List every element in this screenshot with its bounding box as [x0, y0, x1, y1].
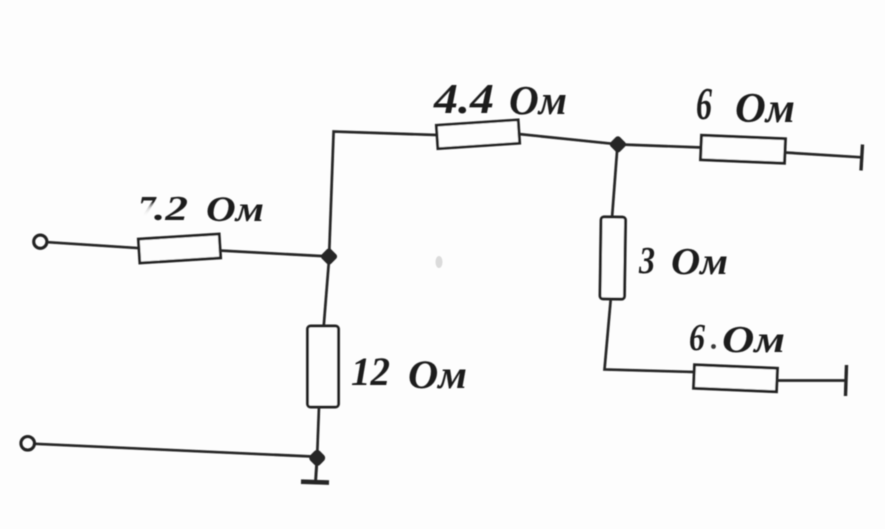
svg-text:Ом: Ом: [408, 352, 467, 397]
value label 6 Ом (bottom right): [689, 317, 785, 361]
wire R2 to node B: [519, 134, 619, 144]
terminal T3 (top right end bar): [861, 145, 863, 171]
svg-text:12: 12: [351, 349, 390, 394]
node B (junction dot): [609, 135, 628, 154]
terminal A2 (bottom-left input circle): [21, 437, 35, 451]
resistor R3 6 Ом (top right): [701, 135, 786, 163]
wire node B to R3: [618, 144, 702, 147]
resistor R6 12 Ом (vertical): [308, 326, 339, 407]
wire node A up to top corner and to R2: [329, 132, 437, 254]
ground: [301, 462, 329, 483]
wire R6 to bottom node C: [317, 407, 319, 456]
svg-text:6: 6: [696, 78, 712, 129]
terminal T4 (bottom right end bar): [846, 365, 847, 396]
wire R4 down to corner and to R5: [605, 299, 695, 373]
value label 7.2 Ом: [138, 189, 264, 229]
wire R5 to bottom right terminal bar: [777, 379, 847, 382]
svg-text:6: 6: [689, 317, 705, 359]
resistor R2 4.4 Ом: [436, 120, 519, 149]
resistor R5 6 Ом (bottom right): [694, 365, 778, 392]
wire terminal A1 to R1: [48, 242, 140, 248]
value label 6 Ом (top right): [696, 78, 795, 132]
svg-text:.2: .2: [154, 189, 188, 228]
svg-text:3: 3: [638, 240, 655, 282]
value label 12 Ом: [351, 349, 467, 397]
svg-text:Ом: Ом: [722, 319, 785, 361]
node C (bottom junction dot): [308, 448, 327, 467]
svg-text:Ом: Ом: [206, 189, 264, 229]
terminal A1 (top-left input circle): [34, 235, 47, 248]
resistor R4 3 Ом (vertical): [600, 217, 626, 299]
wire terminal A2 to node C: [35, 444, 312, 457]
scan smudge artifact near centre: [436, 256, 443, 268]
svg-text:Ом: Ом: [671, 241, 728, 283]
resistor R1 7.2 Ом: [138, 234, 220, 263]
wire node B down to R4: [612, 148, 617, 218]
node A (junction dot): [320, 247, 339, 266]
svg-text:Ом: Ом: [509, 77, 567, 123]
wire R3 to right terminal bar: [785, 153, 862, 158]
wire node A down to R6: [324, 260, 329, 327]
value label 4.4 Ом: [433, 77, 567, 123]
svg-text:Ом: Ом: [735, 86, 795, 132]
wire R1 to node A: [219, 251, 330, 257]
svg-text:4.4: 4.4: [433, 77, 494, 123]
value label 3 Ом: [638, 240, 728, 283]
